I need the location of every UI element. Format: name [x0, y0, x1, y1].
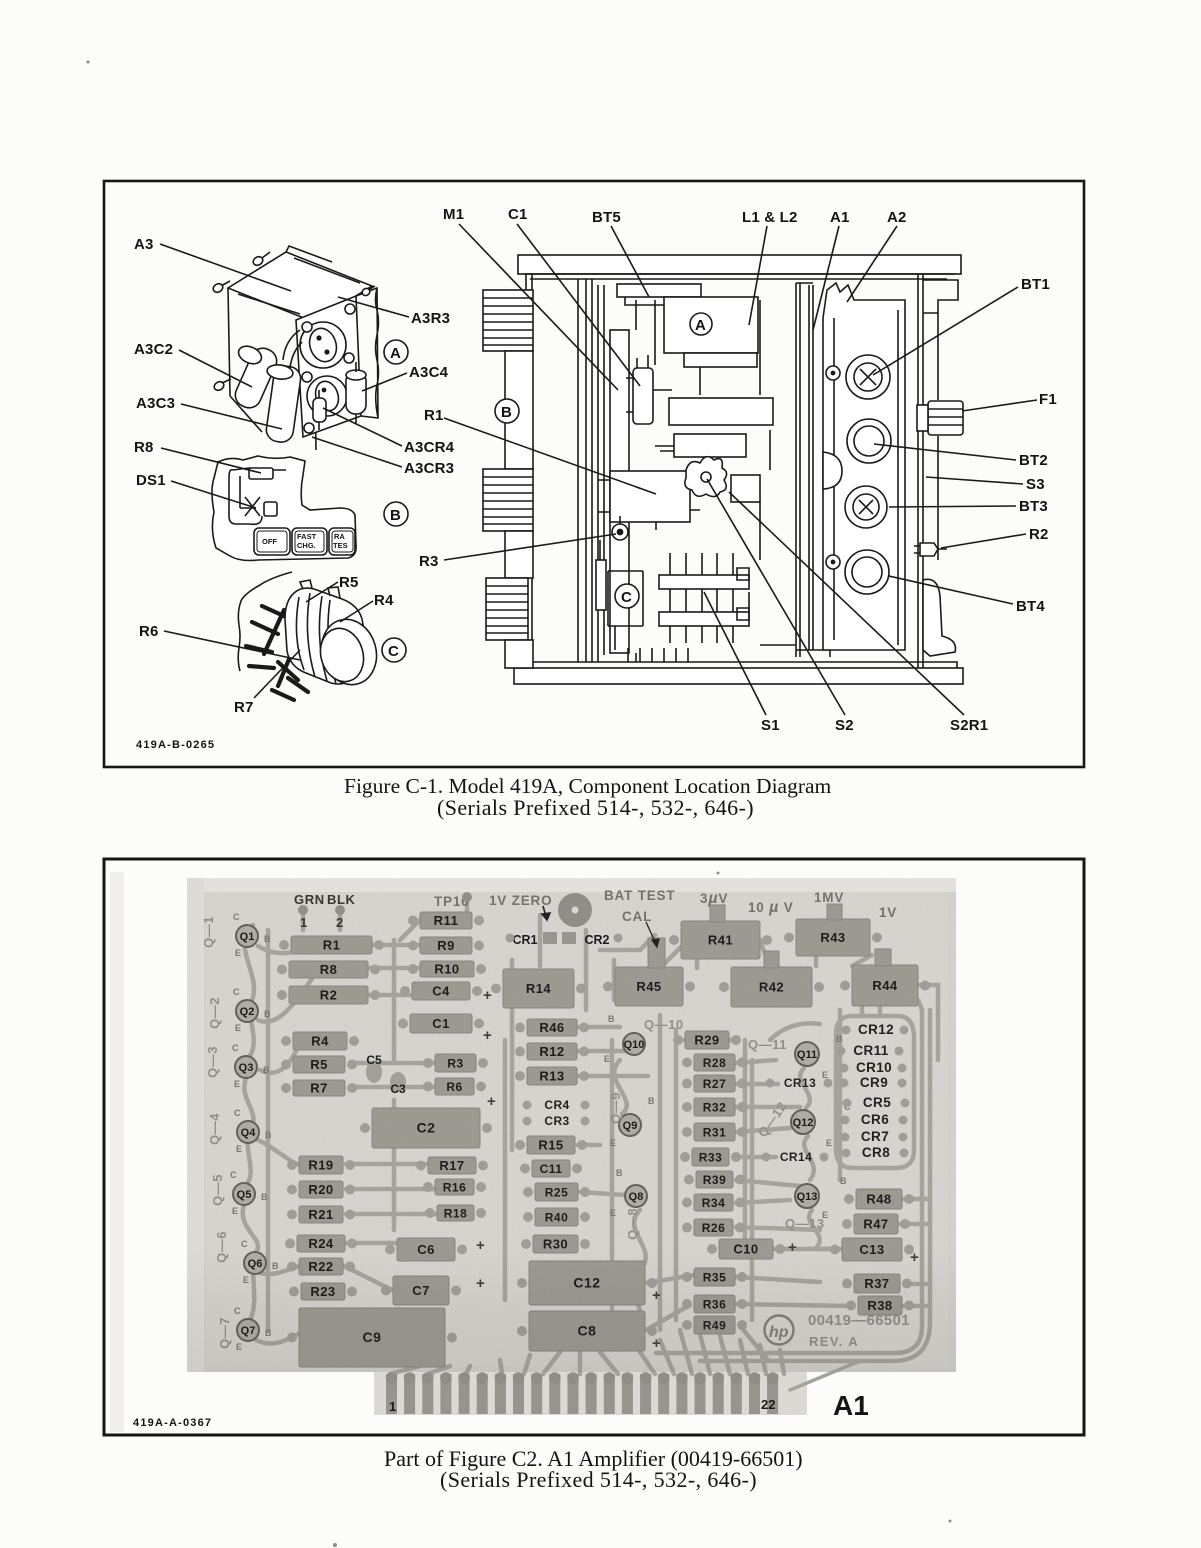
- resistor R39: [684, 1171, 745, 1188]
- svg-text:(Serials Prefixed 514-, 532-,: (Serials Prefixed 514-, 532-, 646-): [437, 795, 754, 820]
- capacitor C2: [360, 1108, 492, 1148]
- diode CR13: [766, 1076, 833, 1090]
- capacitor A3C3: [265, 363, 302, 443]
- svg-text:BT4: BT4: [1016, 598, 1045, 615]
- small parts near C marker: [596, 540, 643, 650]
- resistor R18: [425, 1205, 486, 1221]
- resistor R2: [277, 986, 380, 1004]
- label A3C3: [136, 395, 282, 429]
- svg-text:RA: RA: [334, 532, 345, 541]
- svg-text:BT3: BT3: [1019, 498, 1048, 515]
- top silkscreen labels: [294, 892, 356, 930]
- label F1: [962, 391, 1057, 411]
- diode CR1: [506, 932, 558, 947]
- resistor R35: [682, 1268, 747, 1286]
- resistor R5: [281, 1056, 357, 1073]
- transistor Q4: [237, 1121, 259, 1143]
- lamp DS1: [245, 497, 277, 516]
- capacitor C7: [381, 1276, 461, 1305]
- svg-text:OFF: OFF: [262, 537, 277, 546]
- label BT5: [592, 209, 649, 297]
- svg-text:A: A: [695, 317, 706, 334]
- capacitor C4: [400, 982, 482, 1000]
- resistor R15: [515, 1136, 587, 1154]
- resistor R46: [515, 1019, 589, 1036]
- label M1: [443, 206, 618, 390]
- shaft lower: [505, 531, 533, 578]
- gray Q- labels: [201, 916, 825, 1349]
- chassis left rail: [526, 274, 598, 668]
- label BT2: [874, 444, 1048, 469]
- diode CR11: [837, 1043, 904, 1058]
- diode CR6: [841, 1112, 908, 1127]
- label A3: [134, 236, 291, 291]
- svg-text:R3: R3: [419, 553, 439, 570]
- svg-text:A3R3: A3R3: [411, 310, 450, 327]
- buzzer hole: [558, 893, 592, 927]
- diode CR8: [842, 1145, 909, 1160]
- view marker B (chassis): [495, 399, 519, 423]
- resistor R6: [423, 1078, 486, 1095]
- front panel fragment (torn): [212, 456, 356, 561]
- label A3C4: [362, 364, 449, 391]
- A3 assembly block (A): [664, 297, 758, 367]
- resistor R11: [408, 912, 484, 929]
- label A1: [813, 209, 850, 330]
- capacitor C13: [830, 1238, 914, 1261]
- svg-text:C: C: [388, 643, 399, 660]
- pushbutton OFF: [254, 528, 290, 555]
- scan specks: [87, 61, 952, 1548]
- svg-text:R7: R7: [234, 699, 254, 716]
- meter M1 board edge: [604, 285, 636, 662]
- bottom rail ticks: [628, 648, 688, 662]
- gear knob middle-left: [483, 469, 533, 531]
- view marker C (knob): [382, 638, 406, 662]
- figure frame: [104, 859, 1084, 1435]
- chassis bottom plate: [514, 662, 963, 684]
- label S1: [704, 592, 780, 734]
- svg-text:R4: R4: [374, 592, 394, 609]
- resistor R16: [423, 1179, 486, 1195]
- svg-text:FAST: FAST: [297, 532, 317, 541]
- right wall: [918, 274, 958, 668]
- svg-text:R5: R5: [339, 574, 359, 591]
- svg-text:C1: C1: [508, 206, 528, 223]
- L1 L2 coil bar: [669, 398, 773, 425]
- transistor Q9: [619, 1114, 641, 1136]
- gear knob upper-left: [483, 290, 533, 351]
- svg-text:R6: R6: [139, 623, 159, 640]
- transistor Q11: [795, 1042, 819, 1066]
- battery BT1: [846, 355, 890, 399]
- A3 connector plate: [296, 288, 379, 437]
- center divider rails: [760, 283, 830, 657]
- figure frame: [104, 181, 1084, 767]
- shaft bottom: [505, 640, 533, 668]
- label BT4: [889, 576, 1045, 615]
- resistor R1: [279, 936, 384, 954]
- svg-text:C: C: [621, 589, 632, 606]
- resistor R26: [682, 1219, 745, 1236]
- circled C marker in chassis: [615, 584, 639, 608]
- resistor R19: [287, 1156, 355, 1174]
- battery BT2: [847, 419, 891, 463]
- screw target lower: [826, 555, 840, 569]
- resistor R36: [682, 1295, 747, 1313]
- capacitor C12: [517, 1261, 657, 1305]
- wires on A3: [283, 330, 302, 368]
- label BT1: [873, 276, 1050, 375]
- transistor Q10: [623, 1033, 645, 1055]
- diode CR2: [562, 932, 623, 947]
- svg-text:R8: R8: [134, 439, 154, 456]
- resistor R48: [844, 1189, 914, 1209]
- right lower bracket: [923, 579, 955, 656]
- resistor R14: [491, 969, 586, 1008]
- svg-text:S2R1: S2R1: [950, 717, 988, 734]
- svg-text:M1: M1: [443, 206, 464, 223]
- resistor R47: [842, 1214, 910, 1234]
- resistor R10: [408, 961, 486, 977]
- svg-text:B: B: [390, 507, 401, 524]
- resistor R7: [281, 1080, 357, 1096]
- diode A3CR4: [313, 390, 326, 430]
- screw target upper: [826, 366, 840, 380]
- A3 connector J2: [307, 376, 347, 416]
- svg-text:B: B: [501, 404, 512, 421]
- cal arrow: [646, 922, 659, 947]
- transistor Q12: [791, 1110, 815, 1134]
- resistor R45: [603, 967, 695, 1006]
- resistor R25: [523, 1183, 590, 1201]
- svg-text:A3C3: A3C3: [136, 395, 175, 412]
- hp logo: [765, 1316, 794, 1345]
- resistor R32: [682, 1098, 747, 1116]
- capacitor C5: [366, 1053, 382, 1083]
- photo grain overlay: [187, 878, 956, 1415]
- svg-text:F1: F1: [1039, 391, 1057, 408]
- svg-text:S3: S3: [1026, 476, 1045, 493]
- diode CR3: [523, 1114, 590, 1128]
- label A3C2: [134, 341, 252, 387]
- resistor R49: [682, 1316, 747, 1334]
- pushbutton FAST CHG: [292, 528, 327, 555]
- resistor R3: [423, 1054, 488, 1072]
- resistor R33: [680, 1148, 741, 1166]
- resistor R17: [416, 1157, 488, 1174]
- svg-text:S2: S2: [835, 717, 854, 734]
- capacitor A3C4: [346, 362, 366, 424]
- chassis inner verticals: [655, 300, 770, 612]
- diode CR5: [843, 1095, 910, 1110]
- transistor Q6: [244, 1252, 266, 1274]
- resistor R38: [846, 1296, 914, 1315]
- resistor R1 block: [598, 471, 700, 530]
- svg-text:A3CR3: A3CR3: [404, 460, 454, 477]
- potentiometer body R4/R5: [285, 580, 367, 684]
- label R2: [941, 526, 1049, 548]
- transistor Q5: [233, 1183, 255, 1205]
- svg-text:A1: A1: [833, 1390, 869, 1421]
- capacitor C1 cylinder: [626, 355, 672, 424]
- transistor pin letters: [230, 912, 851, 1352]
- label BT3: [889, 498, 1048, 515]
- circled A marker in chassis: [690, 313, 712, 335]
- knob face R4: [314, 613, 384, 691]
- label S3: [926, 476, 1045, 493]
- resistor R20: [287, 1181, 355, 1198]
- resistor R31: [682, 1123, 747, 1141]
- A3 mounting screws: [212, 252, 375, 392]
- resistor R4: [281, 1032, 359, 1050]
- svg-text:BT5: BT5: [592, 209, 621, 226]
- label L1 & L2: [742, 209, 798, 325]
- resistor R40: [523, 1208, 590, 1226]
- label A3CR4: [323, 408, 455, 456]
- pot terminals R6/R7: [246, 606, 318, 700]
- edge connector fingers: [386, 1372, 779, 1414]
- label A2: [847, 209, 907, 302]
- resistor R30: [521, 1235, 590, 1253]
- diode CR10: [840, 1060, 907, 1075]
- shaft between gears: [505, 351, 533, 469]
- A3 assembly cover (tilted box): [228, 246, 372, 450]
- grommet R3: [612, 516, 628, 540]
- resistor R28: [682, 1054, 747, 1071]
- A3 connector J1: [300, 322, 346, 368]
- resistor R24: [285, 1235, 357, 1252]
- label A3CR3: [312, 437, 454, 477]
- PCB board face: [206, 892, 948, 1366]
- svg-text:A1: A1: [830, 209, 850, 226]
- view marker B (panel): [384, 502, 408, 526]
- label R3: [419, 534, 616, 570]
- capacitor C8: [517, 1311, 657, 1351]
- capacitor C1: [398, 1014, 484, 1033]
- test point pads: [298, 892, 472, 915]
- label C1: [508, 206, 640, 386]
- svg-text:A3: A3: [134, 236, 154, 253]
- diode CR4: [523, 1098, 590, 1112]
- svg-text:TES: TES: [333, 541, 348, 550]
- battery BT3: [845, 486, 887, 528]
- resistor R43: [784, 919, 882, 956]
- resistor R42: [719, 967, 824, 1007]
- label R8: [134, 439, 261, 473]
- svg-text:A2: A2: [887, 209, 907, 226]
- resistor R22: [287, 1258, 355, 1275]
- diode CR7: [841, 1129, 908, 1144]
- svg-text:R2: R2: [1029, 526, 1049, 543]
- label R6: [139, 623, 300, 660]
- capacitor C10: [707, 1239, 785, 1259]
- resistor R13: [515, 1067, 589, 1085]
- svg-text:A: A: [390, 345, 401, 362]
- wire squiggle S2 area: [685, 457, 727, 497]
- svg-text:DS1: DS1: [136, 472, 166, 489]
- transformer bar: [655, 434, 746, 457]
- svg-text:(Serials Prefixed 514-, 532-,: (Serials Prefixed 514-, 532-, 646-): [440, 1467, 757, 1492]
- BT5 bracket under top plate: [617, 284, 701, 305]
- half-moon notch: [823, 452, 842, 489]
- transistor Q8: [625, 1185, 647, 1207]
- copper traces: [243, 900, 938, 1390]
- battery panel: [823, 283, 905, 650]
- resistor R29: [673, 1031, 741, 1049]
- battery BT4: [845, 550, 889, 594]
- view marker A: [384, 340, 408, 364]
- label R7: [234, 650, 300, 716]
- svg-text:R1: R1: [424, 407, 444, 424]
- resistor R44: [840, 965, 930, 1006]
- potentiometer tabs: [648, 904, 891, 968]
- resistor R27: [682, 1075, 747, 1092]
- label R5: [306, 574, 359, 602]
- PCB photo background: [110, 872, 956, 1432]
- capacitor C6: [385, 1238, 467, 1261]
- label DS1: [136, 472, 256, 508]
- diode CR14: [762, 1150, 829, 1164]
- polarity plus marks: [476, 987, 919, 1352]
- transistor Q3: [235, 1056, 257, 1078]
- resistor R8: [277, 961, 380, 978]
- transistor Q1: [236, 925, 258, 947]
- resistor R9: [408, 937, 484, 954]
- svg-text:A3C2: A3C2: [134, 341, 173, 358]
- resistor R37: [842, 1274, 912, 1293]
- capacitor C3: [390, 1072, 406, 1096]
- svg-text:419A-A-0367: 419A-A-0367: [133, 1417, 212, 1429]
- small bar right of R1: [731, 475, 760, 502]
- label R1: [424, 407, 656, 494]
- resistor R12: [515, 1043, 589, 1060]
- capacitor C9: [287, 1308, 457, 1367]
- svg-text:419A-B-0265: 419A-B-0265: [136, 739, 215, 751]
- label R4: [340, 592, 394, 622]
- capacitor A3C2: [232, 343, 281, 412]
- pushbutton BAT TEST: [329, 528, 355, 555]
- label S2: [707, 479, 854, 734]
- R8 lamp bracket: [229, 468, 286, 524]
- resistor R34: [682, 1194, 745, 1211]
- svg-text:BT2: BT2: [1019, 452, 1048, 469]
- svg-text:A3CR4: A3CR4: [404, 439, 455, 456]
- bolt R2: [914, 543, 947, 556]
- zero arrow: [542, 906, 550, 920]
- transistor Q13: [795, 1184, 819, 1208]
- resistor R21: [287, 1206, 355, 1223]
- svg-text:BT1: BT1: [1021, 276, 1050, 293]
- transistor Q2: [236, 1000, 258, 1022]
- fuse F1: [917, 401, 963, 435]
- resistor R23: [289, 1283, 357, 1300]
- svg-text:A3C4: A3C4: [409, 364, 449, 381]
- svg-text:S1: S1: [761, 717, 780, 734]
- diode CR9: [840, 1075, 907, 1090]
- label S2R1: [729, 492, 988, 734]
- A3 plate corner screws: [302, 304, 357, 433]
- resistor R41: [669, 921, 772, 959]
- diode CR12: [842, 1022, 909, 1037]
- transistor Q7: [237, 1319, 259, 1341]
- capacitor C11: [520, 1160, 582, 1177]
- heatsink S1 fins: [659, 553, 749, 643]
- torn edge squiggle (C view): [238, 572, 292, 671]
- gear knob lower-left: [486, 578, 528, 640]
- svg-text:L1 & L2: L1 & L2: [742, 209, 798, 226]
- label A3R3: [338, 297, 450, 327]
- svg-text:CHG.: CHG.: [297, 541, 316, 550]
